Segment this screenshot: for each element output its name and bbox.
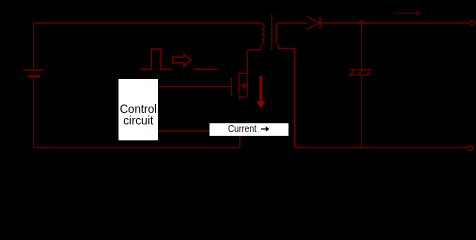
svg-text:Control: Control <box>120 104 157 116</box>
svg-text:Current: Current <box>228 124 257 135</box>
svg-text:circuit: circuit <box>123 116 154 128</box>
